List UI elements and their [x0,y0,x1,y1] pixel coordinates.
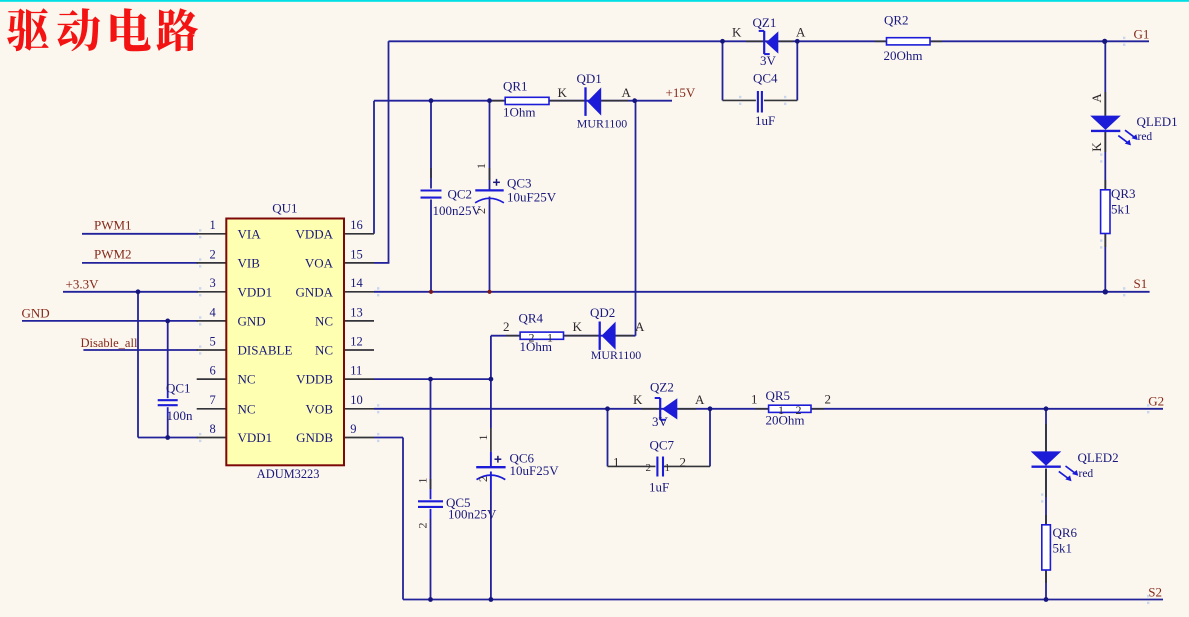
svg-text:1: 1 [210,218,216,232]
svg-text:7: 7 [210,393,216,407]
svg-text:QZ2: QZ2 [650,380,674,395]
svg-text:2: 2 [416,523,430,529]
svg-text:2: 2 [503,319,510,334]
svg-text:NC: NC [315,343,333,358]
svg-text:PWM2: PWM2 [94,247,132,262]
svg-text:15: 15 [350,247,363,261]
svg-text:NC: NC [238,401,256,416]
svg-text:QD1: QD1 [577,71,602,86]
svg-text:red: red [1079,468,1094,480]
svg-text:1: 1 [751,392,758,407]
svg-text:A: A [796,25,806,40]
svg-text:VOA: VOA [305,256,334,271]
svg-text:QLED2: QLED2 [1078,450,1119,465]
svg-text:5k1: 5k1 [1053,541,1073,556]
svg-text:1Ohm: 1Ohm [503,105,536,120]
svg-text:6: 6 [210,364,216,378]
svg-text:16: 16 [350,218,363,232]
svg-text:10: 10 [350,393,363,407]
svg-text:QR2: QR2 [884,13,909,28]
svg-text:5: 5 [210,334,216,348]
svg-text:3V: 3V [760,53,777,68]
svg-text:+15V: +15V [666,85,696,100]
svg-text:20Ohm: 20Ohm [884,48,923,63]
svg-text:G2: G2 [1148,394,1164,409]
svg-text:14: 14 [350,276,363,290]
svg-text:VOB: VOB [306,401,334,416]
svg-text:A: A [695,392,705,407]
svg-text:1: 1 [476,435,490,441]
svg-text:1uF: 1uF [755,113,775,128]
svg-text:ADUM3223: ADUM3223 [257,467,320,481]
svg-text:11: 11 [350,364,362,378]
svg-text:VDDB: VDDB [296,372,333,387]
svg-text:1: 1 [613,455,620,470]
svg-text:A: A [1089,93,1104,103]
svg-text:A: A [635,319,645,334]
svg-text:QLED1: QLED1 [1137,114,1178,129]
svg-text:NC: NC [238,372,256,387]
svg-text:K: K [633,392,643,407]
svg-text:VDD1: VDD1 [238,430,273,445]
svg-text:12: 12 [350,334,363,348]
svg-text:100n: 100n [167,408,194,423]
svg-text:Disable_all: Disable_all [81,336,138,350]
svg-text:2: 2 [474,208,488,214]
svg-text:VDDA: VDDA [295,226,333,241]
svg-text:2: 2 [476,476,490,482]
svg-text:1: 1 [416,478,430,484]
svg-text:GNDB: GNDB [296,430,333,445]
svg-text:K: K [1089,142,1104,152]
svg-text:+3.3V: +3.3V [66,276,100,291]
svg-text:QC3: QC3 [507,176,532,191]
svg-text:PWM1: PWM1 [94,218,132,233]
svg-text:2: 2 [529,330,535,344]
svg-text:QC4: QC4 [753,71,778,86]
svg-text:100n25V: 100n25V [448,507,497,522]
svg-text:VDD1: VDD1 [238,284,273,299]
svg-text:9: 9 [350,422,356,436]
svg-text:2: 2 [646,462,652,474]
svg-text:2: 2 [825,392,832,407]
svg-text:QU1: QU1 [272,201,297,216]
svg-text:QR6: QR6 [1053,525,1078,540]
svg-text:4: 4 [210,305,217,319]
svg-text:3: 3 [210,276,216,290]
svg-text:3V: 3V [652,414,669,429]
svg-text:1uF: 1uF [649,480,669,495]
svg-text:1: 1 [665,462,671,474]
svg-text:GNDA: GNDA [295,284,333,299]
svg-text:2: 2 [680,455,687,470]
svg-text:GND: GND [22,306,50,321]
svg-text:K: K [732,25,742,40]
svg-text:2: 2 [796,403,802,417]
svg-text:A: A [622,85,632,100]
svg-text:10uF25V: 10uF25V [510,463,560,478]
svg-text:S1: S1 [1134,276,1148,291]
svg-text:red: red [1138,131,1153,143]
svg-text:GND: GND [238,314,266,329]
svg-text:QC2: QC2 [448,187,473,202]
svg-text:VIB: VIB [238,256,261,271]
svg-text:13: 13 [350,305,363,319]
svg-text:2: 2 [210,247,216,261]
svg-text:DISABLE: DISABLE [238,343,293,358]
svg-text:8: 8 [210,422,216,436]
svg-text:MUR1100: MUR1100 [591,348,641,362]
svg-text:QR1: QR1 [503,79,528,94]
svg-text:MUR1100: MUR1100 [577,117,627,131]
svg-text:QR5: QR5 [766,388,791,403]
svg-text:G1: G1 [1134,27,1150,42]
svg-text:QZ1: QZ1 [753,15,777,30]
svg-text:5k1: 5k1 [1111,202,1131,217]
svg-text:QC1: QC1 [166,381,191,396]
svg-text:K: K [558,85,568,100]
svg-text:QC7: QC7 [650,438,675,453]
svg-text:VIA: VIA [238,226,262,241]
svg-text:1: 1 [547,330,553,344]
svg-text:NC: NC [315,314,333,329]
svg-text:S2: S2 [1148,584,1162,599]
svg-text:QD2: QD2 [590,305,615,320]
svg-text:1: 1 [778,403,784,417]
svg-text:QR3: QR3 [1111,186,1136,201]
svg-text:1: 1 [474,163,488,169]
svg-text:K: K [573,319,583,334]
svg-text:QR4: QR4 [519,311,544,326]
svg-text:10uF25V: 10uF25V [507,190,557,205]
